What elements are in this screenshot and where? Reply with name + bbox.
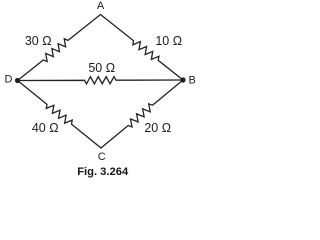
svg-text:20 Ω: 20 Ω — [144, 121, 171, 135]
svg-text:Fig. 3.264: Fig. 3.264 — [77, 166, 129, 178]
wire D-C with resistor 40 Ω — [18, 81, 102, 149]
node B junction dot — [180, 77, 185, 82]
svg-text:B: B — [189, 74, 196, 86]
wire D-B with resistor 50 Ω — [18, 77, 184, 84]
svg-text:50 Ω: 50 Ω — [88, 61, 115, 75]
svg-text:40 Ω: 40 Ω — [32, 121, 59, 135]
wire A-B with resistor 10 Ω — [101, 15, 184, 81]
svg-text:10 Ω: 10 Ω — [155, 34, 182, 48]
svg-text:D: D — [5, 74, 13, 86]
svg-text:C: C — [98, 151, 106, 163]
svg-text:30 Ω: 30 Ω — [25, 34, 52, 48]
wire C-B with resistor 20 Ω — [101, 80, 183, 148]
svg-text:A: A — [97, 0, 105, 12]
wire D-A with resistor 30 Ω — [18, 15, 101, 81]
node D junction dot — [15, 78, 20, 83]
